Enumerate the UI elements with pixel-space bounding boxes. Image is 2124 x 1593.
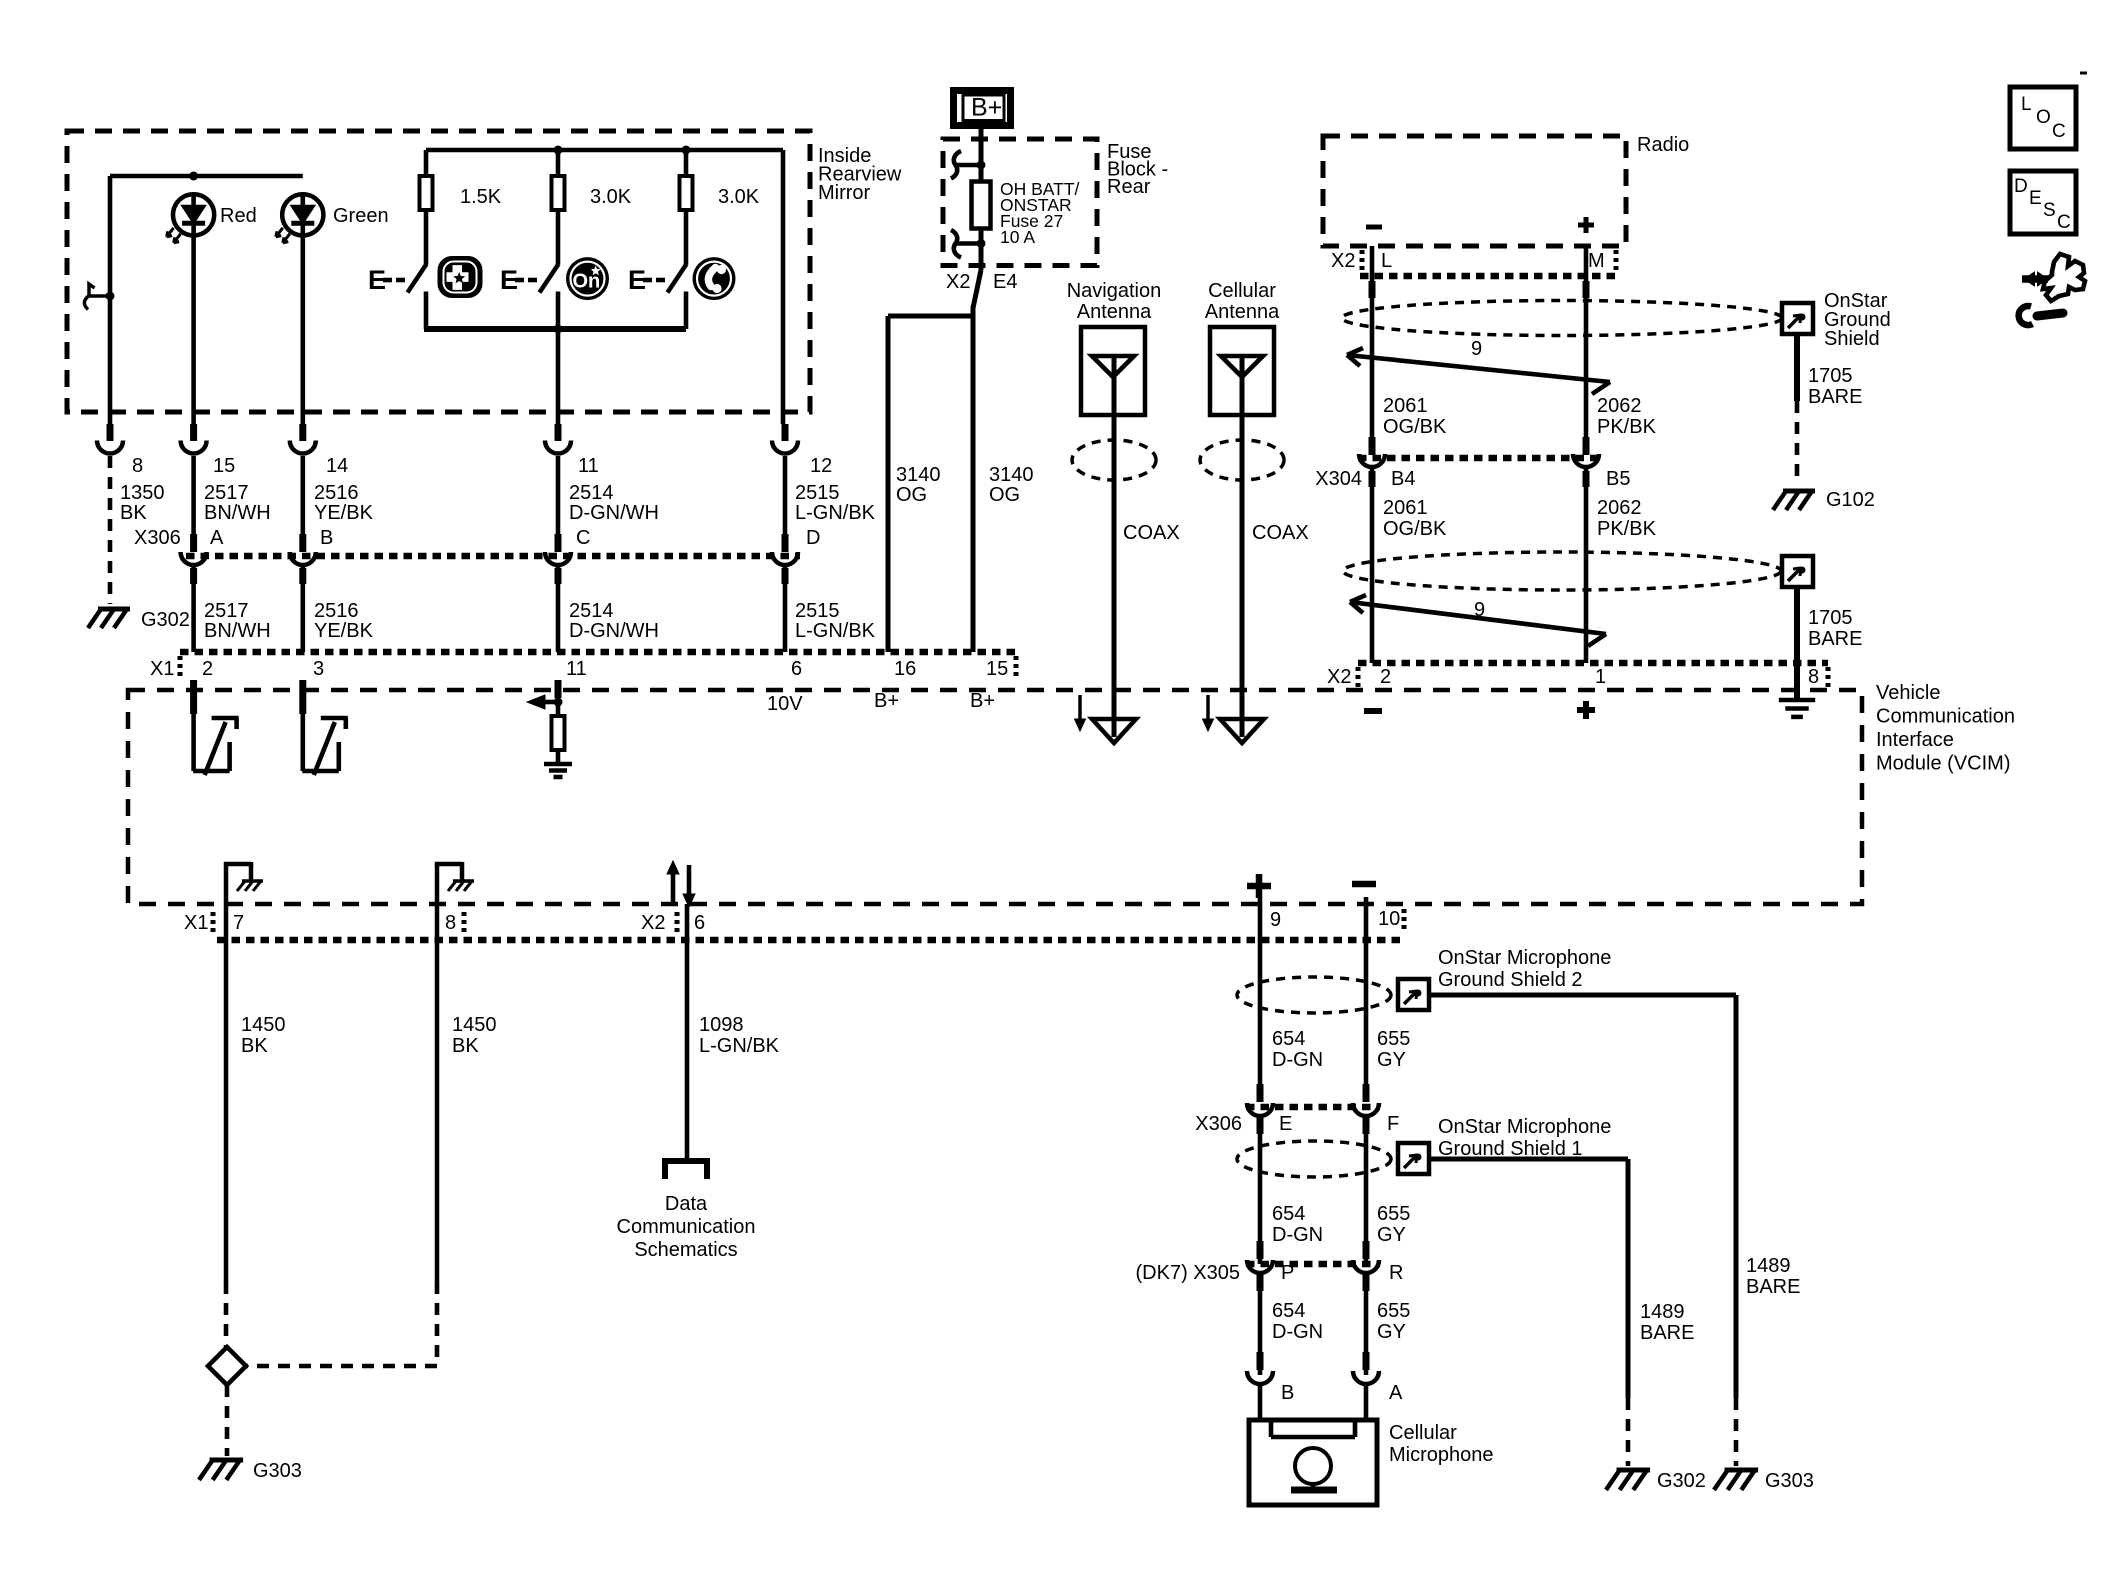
wire 2517 label a <box>204 482 271 524</box>
button network box top rail <box>426 148 783 153</box>
node pin11 junction <box>554 680 563 707</box>
svg-text:L: L <box>2021 94 2032 115</box>
svg-text:E: E <box>1279 1113 1292 1135</box>
splice diamond <box>208 1347 246 1385</box>
wire red LED to connector 15 <box>191 236 196 425</box>
wire 1350 BK dashed to ground <box>108 456 113 604</box>
svg-text:F: F <box>1387 1113 1399 1135</box>
svg-text:A: A <box>210 527 224 549</box>
tick X1 left <box>178 656 183 677</box>
switch E3 <box>628 264 687 295</box>
svg-text:Red: Red <box>220 205 257 227</box>
svg-text:D-GN: D-GN <box>1272 1049 1323 1071</box>
svg-text:L-GN/BK: L-GN/BK <box>795 620 876 642</box>
svg-text:X306: X306 <box>134 527 181 549</box>
icon cross button <box>439 258 481 297</box>
svg-text:B+: B+ <box>971 94 1002 122</box>
label 9 lower <box>1474 599 1485 621</box>
label X2 radio <box>1331 250 1355 272</box>
svg-text:2515: 2515 <box>795 482 840 504</box>
label E4 fuse <box>993 271 1017 293</box>
svg-text:2514: 2514 <box>569 600 614 622</box>
wire 1350 label <box>120 482 165 524</box>
label X306 <box>134 527 181 549</box>
hook ground pin7 <box>224 862 263 940</box>
connector pin 11 terminal <box>545 424 571 454</box>
label plus radio <box>1578 217 1594 233</box>
pin label 7 <box>233 912 244 934</box>
svg-text:3140: 3140 <box>989 464 1034 486</box>
wire below X306 A <box>190 566 197 652</box>
svg-text:1: 1 <box>1595 666 1606 688</box>
pin label E <box>1279 1113 1292 1135</box>
svg-text:654: 654 <box>1272 1028 1305 1050</box>
label 1705 lower <box>1808 607 1862 650</box>
svg-text:COAX: COAX <box>1123 522 1180 544</box>
LED Red <box>167 194 257 243</box>
svg-text:X304: X304 <box>1315 468 1362 490</box>
wire 654 seg1 <box>1257 897 1264 1102</box>
svg-text:Communication: Communication <box>1876 706 2015 728</box>
pin label C <box>576 527 590 549</box>
pin label X1-2 <box>202 658 213 680</box>
svg-text:G302: G302 <box>141 609 190 631</box>
svg-text:X2: X2 <box>1331 250 1355 272</box>
wire 2517 label b <box>204 600 271 642</box>
svg-text:G302: G302 <box>1657 1470 1706 1492</box>
svg-text:654: 654 <box>1272 1203 1305 1225</box>
connector X305 face <box>1246 1261 1380 1268</box>
wire 2515 label b <box>795 600 876 642</box>
arrow coax nav end <box>1092 719 1136 743</box>
label 1489 BARE a <box>1640 1301 1694 1344</box>
svg-text:Vehicle: Vehicle <box>1876 682 1941 704</box>
tick X1 right <box>1014 656 1019 677</box>
shield box mic 2 <box>1398 979 1429 1010</box>
wire below X306 D <box>782 566 789 652</box>
splice bracket data comm <box>665 1161 707 1179</box>
tiny mark top right <box>2080 72 2087 75</box>
wire 12 from top rail corner <box>781 150 786 424</box>
arrow serial data <box>527 695 558 709</box>
label Fuse Block - Rear <box>1107 141 1168 198</box>
svg-text:9: 9 <box>1474 599 1485 621</box>
label OnStar Ground Shield <box>1824 290 1891 350</box>
coax ellipse nav <box>1072 440 1156 480</box>
resistor 1.5K <box>420 150 433 265</box>
label 1705 upper <box>1808 365 1862 408</box>
svg-text:B+: B+ <box>970 690 995 712</box>
svg-text:D: D <box>2014 176 2028 197</box>
svg-text:1489: 1489 <box>1746 1255 1791 1277</box>
resistor 3.0K right <box>680 150 693 265</box>
pin label A <box>1389 1382 1403 1404</box>
ground G303 left <box>199 1460 243 1480</box>
wire 1450 label b <box>452 1014 497 1057</box>
shield ellipse radio 2 <box>1343 552 1781 590</box>
pin label P <box>1281 1262 1294 1284</box>
svg-text:Antenna: Antenna <box>1077 301 1152 323</box>
wire 1450 label a <box>241 1014 286 1057</box>
switch VCIM pin3 <box>299 680 348 775</box>
svg-text:655: 655 <box>1377 1300 1410 1322</box>
svg-text:3.0K: 3.0K <box>718 186 760 208</box>
mic shield ellipse 1 <box>1237 1141 1391 1177</box>
wire 2516 seg a <box>300 456 305 534</box>
label pin M <box>1588 250 1605 272</box>
tick X2v left <box>1356 667 1361 688</box>
svg-text:Module (VCIM): Module (VCIM) <box>1876 753 2010 775</box>
wire below X306 B <box>299 566 306 652</box>
pin label X2-2 <box>1380 666 1391 688</box>
cellular microphone box <box>1249 1420 1377 1505</box>
svg-text:D-GN/WH: D-GN/WH <box>569 620 659 642</box>
svg-text:OG/BK: OG/BK <box>1383 416 1447 438</box>
wire 3140 label a <box>896 464 941 506</box>
label G302 right <box>1657 1470 1706 1492</box>
svg-text:Shield: Shield <box>1824 328 1880 350</box>
wire 1450 pin8 dashed <box>246 1282 437 1366</box>
pin label 6 <box>694 912 705 934</box>
svg-text:2062: 2062 <box>1597 497 1642 519</box>
label Navigation Antenna <box>1067 280 1162 323</box>
connector X304 pin B4 <box>1359 437 1385 467</box>
svg-text:655: 655 <box>1377 1028 1410 1050</box>
svg-text:S: S <box>2043 200 2056 221</box>
wire X2-6 stub <box>685 904 690 1161</box>
wire fuse out <box>973 228 981 308</box>
switch VCIM pin2 <box>190 680 239 775</box>
label 1.5K <box>460 186 502 208</box>
svg-text:L-GN/BK: L-GN/BK <box>795 502 876 524</box>
tick bottom 8 <box>462 912 467 934</box>
LED Green <box>276 194 389 243</box>
ground G303 right <box>1714 1470 1758 1490</box>
label COAX nav <box>1123 522 1180 544</box>
connector pin 15 terminal <box>181 424 207 454</box>
pin label 10 <box>1378 908 1400 930</box>
svg-text:Data: Data <box>665 1193 708 1215</box>
svg-text:Green: Green <box>333 205 389 227</box>
label VCIM <box>1876 682 2015 775</box>
svg-text:B: B <box>320 527 333 549</box>
svg-text:3.0K: 3.0K <box>590 186 632 208</box>
wire 654 label 1 <box>1272 1028 1323 1071</box>
connector X306 pin D <box>772 534 798 565</box>
svg-text:C: C <box>2057 212 2071 233</box>
svg-text:GY: GY <box>1377 1224 1406 1246</box>
tick bottom 6 <box>675 912 680 934</box>
svg-text:2061: 2061 <box>1383 395 1428 417</box>
connector pin 12 terminal <box>772 424 798 454</box>
switch E2 <box>500 264 559 295</box>
pin label 12 <box>810 455 832 477</box>
svg-text:Navigation: Navigation <box>1067 280 1162 302</box>
wire 1705 dashed to G102 <box>1795 401 1800 483</box>
svg-text:1.5K: 1.5K <box>460 186 502 208</box>
inside rearview mirror module box <box>67 131 810 412</box>
connector X305 pin P <box>1247 1260 1273 1273</box>
wire 2061 lower <box>1369 469 1376 663</box>
label X2 fuse <box>946 271 970 293</box>
button network box bottom rail <box>424 326 686 332</box>
svg-text:2517: 2517 <box>204 482 249 504</box>
ground earth 1705 <box>1779 700 1815 717</box>
label X1 <box>150 658 174 680</box>
svg-text:1350: 1350 <box>120 482 165 504</box>
pin label 11 <box>578 455 599 477</box>
svg-text:2516: 2516 <box>314 482 359 504</box>
svg-text:OG: OG <box>896 484 927 506</box>
fuse block box <box>943 139 1097 266</box>
wire 2061 label b <box>1383 497 1447 540</box>
svg-text:3: 3 <box>313 658 324 680</box>
wire 655 seg1 <box>1363 897 1370 1102</box>
legend arrow icon <box>2019 254 2085 325</box>
icon phone button <box>693 257 736 300</box>
B+ battery feed <box>954 91 1011 126</box>
svg-text:OnStar Microphone: OnStar Microphone <box>1438 1116 1611 1138</box>
pin label 14 <box>326 455 348 477</box>
svg-text:L-GN/BK: L-GN/BK <box>699 1035 780 1057</box>
fuse OH BATT/ONSTAR Fuse 27 10A <box>972 165 991 229</box>
svg-text:PK/BK: PK/BK <box>1597 416 1657 438</box>
svg-text:Communication: Communication <box>617 1216 756 1238</box>
label minus radio <box>1366 225 1382 230</box>
svg-text:Radio: Radio <box>1637 134 1689 156</box>
svg-text:Cellular: Cellular <box>1389 1422 1457 1444</box>
svg-text:GY: GY <box>1377 1049 1406 1071</box>
connector X304 face line <box>1358 455 1600 462</box>
pin label 8 <box>132 455 143 477</box>
tick bottom 10 <box>1402 909 1407 931</box>
svg-text:9: 9 <box>1270 909 1281 931</box>
svg-text:15: 15 <box>986 658 1008 680</box>
ground G302 right <box>1606 1470 1650 1490</box>
svg-text:YE/BK: YE/BK <box>314 502 374 524</box>
ground G302 mirror <box>88 609 130 628</box>
node bottom rail - wire 11 <box>554 325 563 334</box>
svg-text:X2: X2 <box>641 912 665 934</box>
label Radio <box>1637 134 1689 156</box>
svg-text:655: 655 <box>1377 1203 1410 1225</box>
svg-text:Rear: Rear <box>1107 176 1151 198</box>
svg-text:2061: 2061 <box>1383 497 1428 519</box>
pin label 15 <box>213 455 235 477</box>
label 3.0K middle <box>590 186 632 208</box>
svg-text:6: 6 <box>694 912 705 934</box>
svg-text:G303: G303 <box>253 1460 302 1482</box>
wire 2061 label a <box>1383 395 1447 438</box>
pin label B4 <box>1391 468 1415 490</box>
shield ellipse radio 1 <box>1342 301 1782 336</box>
ground G102 <box>1773 491 1815 510</box>
svg-text:BARE: BARE <box>1640 1322 1694 1344</box>
wire mic A <box>1364 1386 1369 1422</box>
pin label X2-1 <box>1595 666 1606 688</box>
connector pin 8 terminal <box>97 424 123 454</box>
connector X306 pin A <box>181 534 207 565</box>
label X1 bottom <box>184 912 208 934</box>
wire LED supply bus <box>110 174 303 179</box>
wire 2514 label b <box>569 600 659 642</box>
label G303 left <box>253 1460 302 1482</box>
svg-text:2515: 2515 <box>795 600 840 622</box>
svg-text:8: 8 <box>1808 666 1819 688</box>
twisted pair 9 upper <box>1347 348 1610 394</box>
resistor 3.0K middle <box>552 150 565 265</box>
tick X2 radio left <box>1360 250 1365 272</box>
wire shield2 dashed <box>1734 1398 1739 1466</box>
svg-text:L: L <box>1381 250 1392 272</box>
wire 654 label 3 <box>1272 1300 1323 1343</box>
coax ellipse cel <box>1200 440 1284 480</box>
svg-text:Ground Shield 2: Ground Shield 2 <box>1438 969 1583 991</box>
wire 3140 label b <box>989 464 1034 506</box>
svg-text:BK: BK <box>452 1035 479 1057</box>
radio box <box>1323 136 1626 246</box>
shield box mic 1 <box>1398 1143 1429 1174</box>
switch E1 <box>368 264 427 295</box>
svg-text:COAX: COAX <box>1252 522 1309 544</box>
svg-text:On: On <box>573 271 601 293</box>
svg-text:D-GN: D-GN <box>1272 1321 1323 1343</box>
wire shield2 run <box>1429 995 1736 1398</box>
label 3.0K right <box>718 186 760 208</box>
svg-text:BARE: BARE <box>1746 1276 1800 1298</box>
arrow coax cel end <box>1220 719 1264 743</box>
label DK7 X305 <box>1136 1262 1241 1284</box>
connector bottom face line <box>217 937 1404 944</box>
svg-text:Schematics: Schematics <box>634 1239 737 1261</box>
svg-text:R: R <box>1389 1262 1403 1284</box>
svg-text:BN/WH: BN/WH <box>204 620 271 642</box>
pin label B <box>1281 1382 1294 1404</box>
wire switch3 to bottom rail <box>684 292 689 330</box>
svg-text:8: 8 <box>132 455 143 477</box>
wire 2515 label a <box>795 482 876 524</box>
svg-text:D: D <box>806 527 820 549</box>
wire 655 label 1 <box>1377 1028 1410 1071</box>
wire coax cel <box>1240 415 1245 737</box>
svg-text:C: C <box>576 527 590 549</box>
svg-text:A: A <box>1389 1382 1403 1404</box>
svg-text:2062: 2062 <box>1597 395 1642 417</box>
fuse clip top <box>951 151 986 179</box>
svg-text:X306: X306 <box>1195 1113 1242 1135</box>
tick bottom 7 <box>211 912 216 934</box>
pin label X1-3 <box>313 658 324 680</box>
pin label X1-6 <box>791 658 802 680</box>
svg-text:B4: B4 <box>1391 468 1415 490</box>
label plus VCIM <box>1577 701 1595 719</box>
arrows updown pin6 <box>667 861 695 907</box>
wire 1705 lower <box>1794 586 1800 700</box>
wire 2514 seg a <box>556 456 561 534</box>
svg-text:X1: X1 <box>184 912 208 934</box>
label 1489 BARE b <box>1746 1255 1800 1298</box>
label OnStar Microphone Ground Shield 2 <box>1438 947 1611 991</box>
svg-text:C: C <box>2052 121 2066 142</box>
label fuse <box>1000 179 1080 247</box>
wire 1098 label <box>699 1014 780 1057</box>
svg-text:9: 9 <box>1471 338 1482 360</box>
label B+ 15 <box>970 690 995 712</box>
connector X2 VCIM face line <box>1358 660 1828 667</box>
label pin L <box>1381 250 1392 272</box>
wire 1450 pin8 <box>435 940 440 1282</box>
svg-text:11: 11 <box>578 455 599 477</box>
tick X2v right <box>1826 667 1831 688</box>
twisted pair 9 lower <box>1350 595 1606 646</box>
hook ground pin8 <box>435 862 474 940</box>
svg-text:Microphone: Microphone <box>1389 1444 1494 1466</box>
connector X2 radio face <box>1360 273 1618 280</box>
pin label A <box>210 527 224 549</box>
shield box radio 1 <box>1782 303 1813 334</box>
label X306 EF <box>1195 1113 1242 1135</box>
svg-text:B: B <box>1281 1382 1294 1404</box>
svg-text:Cellular: Cellular <box>1208 280 1276 302</box>
label G302 <box>141 609 190 631</box>
svg-text:11: 11 <box>566 658 587 680</box>
svg-text:2: 2 <box>202 658 213 680</box>
svg-text:OnStar Microphone: OnStar Microphone <box>1438 947 1611 969</box>
svg-text:G102: G102 <box>1826 489 1875 511</box>
svg-text:G303: G303 <box>1765 1470 1814 1492</box>
svg-text:GY: GY <box>1377 1321 1406 1343</box>
label G102 <box>1826 489 1875 511</box>
connector BA pin B <box>1247 1371 1273 1384</box>
svg-text:10: 10 <box>1378 908 1400 930</box>
connector X306 EF face <box>1246 1104 1380 1111</box>
svg-text:P: P <box>1281 1262 1294 1284</box>
svg-text:D-GN: D-GN <box>1272 1224 1323 1246</box>
label 10V <box>767 693 803 715</box>
arrow small nav <box>1075 695 1086 731</box>
svg-text:D-GN/WH: D-GN/WH <box>569 502 659 524</box>
label plus mic <box>1247 874 1271 898</box>
wire 2062 label b <box>1597 497 1657 540</box>
label X2 VCIM <box>1327 666 1351 688</box>
pin label R <box>1389 1262 1403 1284</box>
wire 11 from rail <box>556 329 561 424</box>
connector X306 face line <box>186 553 800 560</box>
svg-text:BK: BK <box>120 502 147 524</box>
wire 3140 OG main <box>971 306 976 652</box>
svg-text:6: 6 <box>791 658 802 680</box>
wire mic B <box>1258 1386 1263 1422</box>
label OnStar Microphone Ground Shield 1 <box>1438 1116 1611 1160</box>
pin label X1-11 <box>566 658 587 680</box>
svg-text:10 A: 10 A <box>1000 227 1035 247</box>
svg-text:BARE: BARE <box>1808 628 1862 650</box>
label Data Communication Schematics <box>617 1193 756 1261</box>
wire 655 seg3 <box>1363 1273 1370 1375</box>
svg-text:2517: 2517 <box>204 600 249 622</box>
pin label B5 <box>1606 468 1630 490</box>
wire radio L upper <box>1369 246 1376 437</box>
svg-text:B5: B5 <box>1606 468 1630 490</box>
label X2 bottom <box>641 912 665 934</box>
wire switch1 to bottom rail <box>424 292 429 330</box>
pin label F <box>1387 1113 1399 1135</box>
wire 654 label 2 <box>1272 1203 1323 1246</box>
connector X306 pin C <box>545 534 571 565</box>
VCIM module box <box>128 690 1862 904</box>
label B+ 16 <box>874 690 899 712</box>
node rail-middle <box>554 146 563 155</box>
